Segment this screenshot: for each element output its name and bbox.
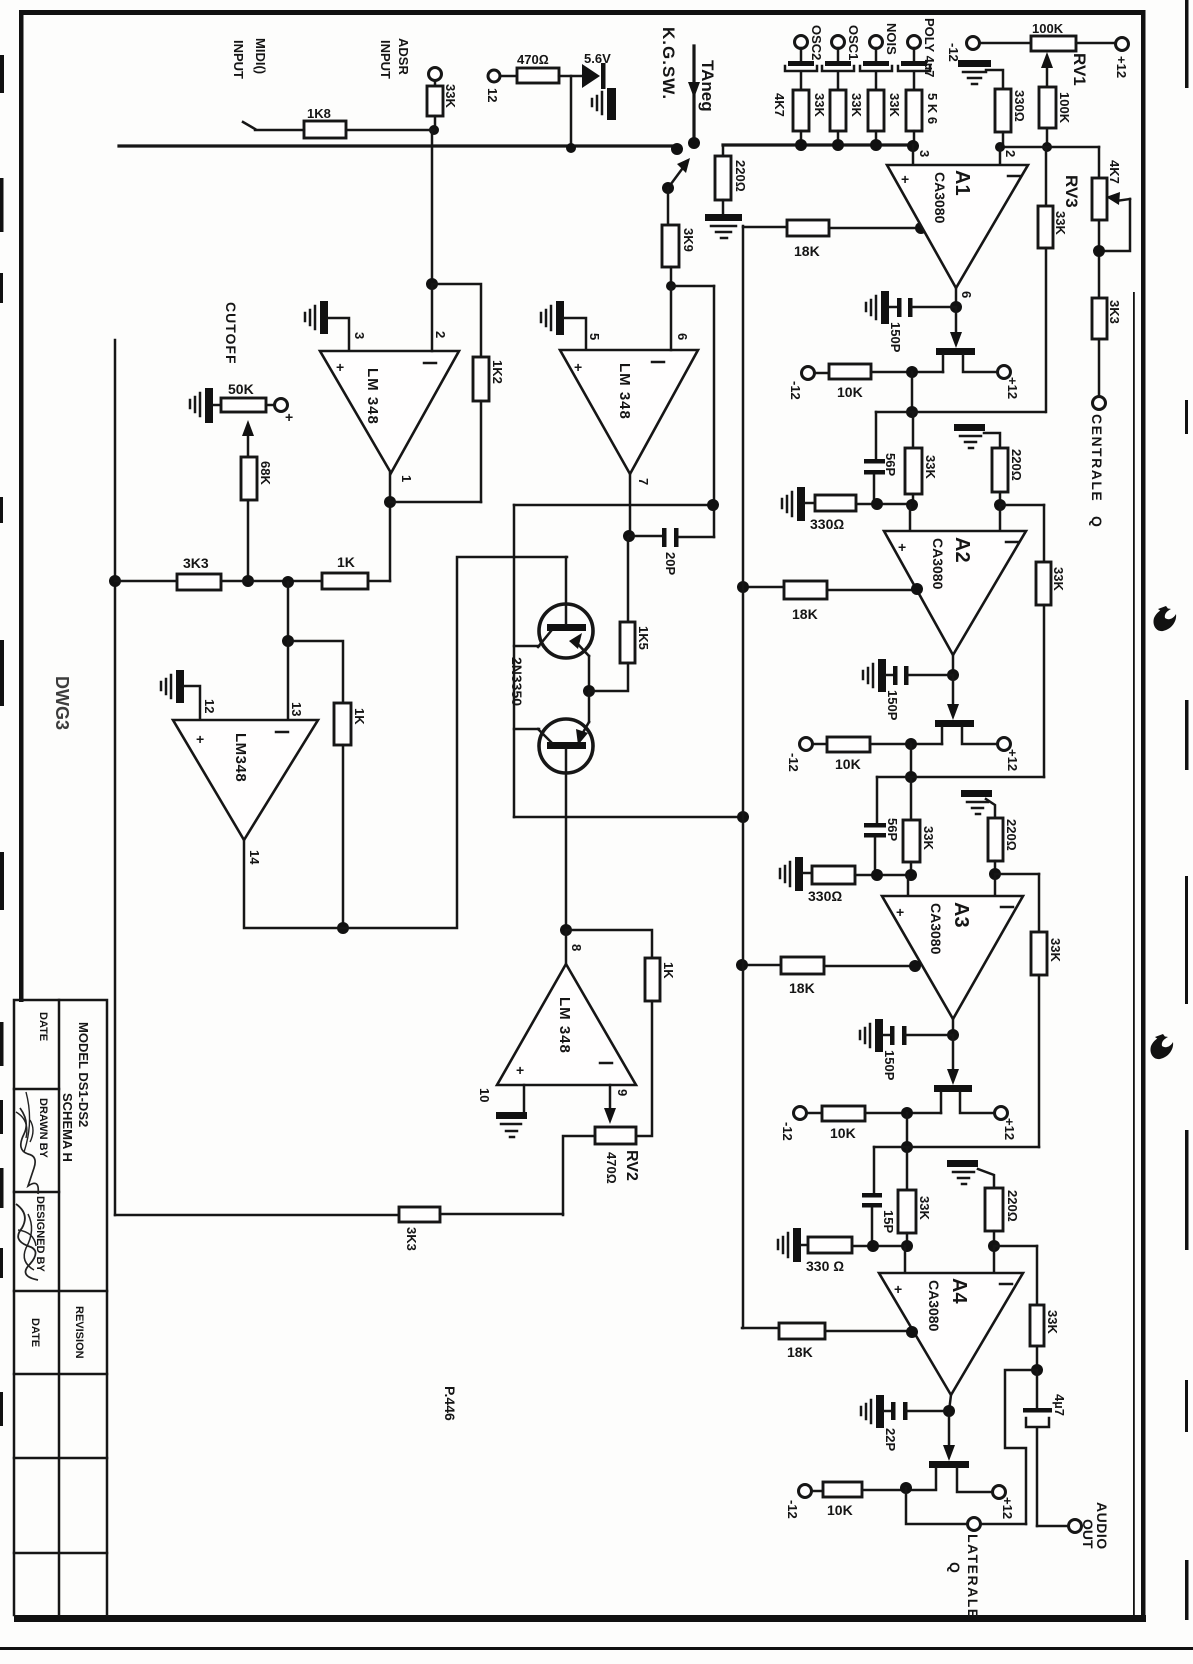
resistor 5K6 (POLY) [906, 90, 922, 131]
svg-text:-12: -12 [780, 1122, 795, 1141]
node rail switch pole [671, 143, 683, 155]
wire ground to 330R [986, 70, 1003, 89]
TOPLEFT [119, 38, 677, 284]
node 33K/1K8 junction [429, 125, 439, 135]
svg-text:+: + [336, 359, 344, 375]
wire ground to 330R (A3) [803, 872, 812, 875]
wire step to LATERALE row [1005, 1370, 1037, 1524]
wire 33K fb to fb row (A2) [1043, 605, 1046, 777]
svg-text:1K: 1K [352, 708, 367, 725]
node 3K9/pin6 [666, 281, 676, 291]
FET buffer (A4) [929, 1461, 969, 1468]
resistor 18K (A2) [784, 581, 827, 599]
svg-text:K.G.SW.: K.G.SW. [659, 27, 678, 100]
svg-text:A1: A1 [951, 170, 973, 196]
node on A1 left edge [915, 222, 927, 234]
label minus (LM2) [652, 361, 664, 364]
ground (22P A4) [876, 1395, 884, 1428]
svg-text:3: 3 [917, 150, 932, 157]
wire node2 to A1 minus input [999, 147, 1002, 165]
terminal -12 (470R) [488, 70, 500, 82]
ground (330R RV1) [958, 60, 991, 67]
resistor 33K (A2-A3 chain) [903, 820, 920, 862]
resistor 3K3 (row578) [177, 574, 221, 590]
svg-text:NOIS: NOIS [884, 23, 899, 55]
title block divider vertical [58, 1000, 61, 1615]
svg-text:3: 3 [352, 332, 367, 339]
wire row to A2 plus input [909, 505, 912, 531]
scan mark left edge [0, 55, 4, 93]
wire output to FET gate w arrow (A4) [948, 1411, 951, 1451]
svg-text:OSC2: OSC2 [809, 25, 824, 60]
wire 33K fb to fb row (A3) [1038, 975, 1041, 1147]
op-amp LM348 #4 [497, 964, 636, 1085]
ground (LM2 pin5) [556, 301, 564, 335]
svg-text:RV3: RV3 [1062, 175, 1081, 208]
node fb row (A1) [906, 406, 918, 418]
wire minus node to fb resistor (A3) [995, 873, 1039, 876]
svg-text:3K3: 3K3 [1107, 300, 1122, 324]
wire 10K to FET source (A2) [870, 743, 942, 746]
label minus (LM1) [424, 362, 436, 365]
node 2 (A1 inverting) [995, 142, 1005, 152]
wire 1K5 to node [589, 663, 628, 691]
svg-text:REVISION: REVISION [73, 1306, 85, 1359]
MIXER [772, 18, 940, 165]
resistor 33K (NOISE) [868, 90, 884, 131]
wire ground to 50K [213, 404, 221, 407]
resistor 10K (A4) [823, 1482, 862, 1497]
svg-text:5: 5 [587, 333, 602, 340]
capacitor 15P (A3-A4) [862, 1193, 882, 1198]
capacitor (OSC2 input) [800, 48, 803, 61]
svg-text:1K8: 1K8 [307, 106, 331, 121]
wire source to LATERALE Q [906, 1488, 967, 1524]
wire rail into A1 + input [912, 145, 915, 165]
wire bus to 18K (A4) [742, 1327, 779, 1330]
wire row578 left [115, 580, 177, 583]
node A3 minus [989, 868, 1001, 880]
ground (zener) [607, 88, 616, 120]
wiper arrow RV1 [1046, 62, 1049, 87]
wire 1K8 left lead [243, 122, 304, 130]
svg-text:150P: 150P [882, 1050, 897, 1081]
svg-text:LM 348: LM 348 [556, 997, 573, 1054]
node bus/18K (A2) [737, 581, 749, 593]
resistor 33K (A1-A2 chain) [905, 448, 922, 494]
svg-text:33K: 33K [917, 1196, 932, 1220]
resistor 1K (LM3 fb) [334, 703, 351, 745]
label minus (A4) [1000, 1283, 1012, 1286]
resistor 220R (A2) [992, 448, 1008, 492]
wire feedback row (A3) [874, 1146, 1039, 1149]
wire zener node down to rail [570, 76, 573, 148]
node on A2 left edge [911, 583, 923, 595]
node pin13/1K [282, 635, 294, 647]
wire ground to 220R (A4) [978, 1169, 994, 1188]
resistor 33K (A4 feedback) [1030, 1305, 1044, 1346]
node fb row (A2) [905, 771, 917, 783]
wire A4 output [949, 1395, 951, 1411]
resistor 1K (row578) [322, 573, 368, 589]
wire ground to pin12 [184, 686, 200, 720]
wire 220R top to rail [722, 145, 725, 156]
svg-text:CA3080: CA3080 [928, 903, 944, 955]
wire 330R to node 2 [1002, 132, 1005, 147]
wire 10K to FET source (A3) [865, 1112, 941, 1115]
terminal KBD input [429, 68, 442, 81]
wire source down to fb row (A3) [906, 1113, 909, 1147]
ground (LM4 pin10) [496, 1112, 527, 1119]
svg-text:33K: 33K [812, 93, 827, 117]
svg-text:10K: 10K [835, 756, 861, 772]
svg-text:+: + [574, 359, 582, 375]
node 33K/row (A4) [901, 1240, 913, 1252]
ground (150P A3) [875, 1019, 883, 1052]
resistor 10K (A1) [829, 364, 871, 379]
terminal CENTRALE Q [1093, 397, 1106, 410]
ground (220R A3) [961, 790, 992, 797]
svg-text:LM 348: LM 348 [364, 368, 381, 425]
wire POLY to rail [913, 131, 916, 145]
terminal +12 (A4) [993, 1486, 1006, 1499]
RV1 [946, 21, 1129, 165]
svg-text:-12: -12 [946, 43, 961, 62]
node 68K/row [242, 575, 254, 587]
wire TAneg vertical [692, 46, 695, 143]
terminal OSC2 [795, 36, 808, 49]
svg-text:+: + [516, 1062, 524, 1078]
wire ground to 220R (A3) [986, 799, 995, 818]
capacitor 150P (A1) [889, 306, 897, 309]
LM1 [190, 278, 505, 587]
svg-text:INPUT: INPUT [231, 40, 246, 79]
node A1 output [950, 301, 962, 313]
resistor 3K3 (RV3 chain) [1092, 298, 1107, 339]
svg-text:+: + [898, 539, 906, 555]
signature drawn-by [20, 1108, 38, 1194]
terminal LATERALE Q [968, 1518, 981, 1531]
svg-text:3K3: 3K3 [183, 555, 209, 571]
signature designed-by [16, 1204, 38, 1280]
svg-text:+12: +12 [1000, 1497, 1015, 1519]
svg-text:LM348: LM348 [232, 733, 249, 782]
wire pin14 output [244, 557, 567, 928]
svg-text:LATERALE: LATERALE [965, 1534, 981, 1620]
wire minus node into A3 [994, 874, 997, 896]
terminal NOISE [870, 36, 883, 49]
resistor 33K (KBD input) [427, 86, 443, 116]
svg-text:ADSR: ADSR [396, 38, 411, 75]
wire left bus x115 [114, 340, 117, 1215]
node A4 source [900, 1482, 912, 1494]
resistor 33K (A1 feedback) [1038, 206, 1053, 248]
svg-text:12: 12 [485, 88, 500, 102]
wire 68K to row [247, 500, 250, 581]
label minus (A3) [1001, 906, 1013, 909]
border left [19, 10, 24, 1002]
wire y817 to bus [514, 816, 743, 819]
wire minus node into A2 [999, 505, 1002, 531]
svg-text:CA3080: CA3080 [926, 1280, 942, 1332]
wire bus to 18K (A3) [742, 964, 781, 967]
wire to 56P [875, 412, 878, 459]
ground (LM1 pin3) [320, 301, 328, 334]
wire A2 plus row [856, 503, 913, 506]
wire pin8 node to 1K [566, 930, 652, 958]
svg-text:33K: 33K [923, 455, 938, 479]
wire 3K9 to pin6 node [670, 267, 673, 286]
wire ground to pin3 [328, 318, 349, 351]
svg-text:33K: 33K [921, 826, 936, 850]
border right outer [1141, 10, 1146, 1622]
op-amp LM348 #3 [173, 720, 318, 840]
node OSC1/rail [832, 139, 844, 151]
wire OSC1 to rail [837, 131, 840, 145]
resistor 33K (OSC1) [830, 90, 846, 131]
wire 220R to minus node (A3) [994, 861, 997, 874]
wire row1215 right [440, 1213, 563, 1216]
svg-text:-12: -12 [785, 1500, 800, 1519]
wire pin13 [287, 641, 290, 720]
svg-text:1K5: 1K5 [636, 626, 651, 650]
node A1 source [906, 366, 918, 378]
wire pin8 into LM4 [565, 930, 568, 964]
resistor 220R (A4) [985, 1188, 1003, 1231]
wire pin6 into LM2 [670, 286, 673, 350]
op-amp LM348 #2 [560, 350, 698, 474]
A3 [736, 790, 1063, 1246]
node NOISE/rail [870, 139, 882, 151]
transistor Q2 2N3350 [588, 691, 591, 722]
op-amp LM348 #1 [320, 351, 459, 473]
wire ground to 330R (A4) [801, 1244, 808, 1247]
svg-text:10K: 10K [830, 1125, 856, 1141]
capacitor 22P (A4) [884, 1410, 891, 1413]
resistor 10K (A2) [827, 737, 870, 752]
wire ground to 330R (A2) [805, 502, 815, 505]
wire -12 to RV1 [980, 42, 1031, 45]
svg-text:2: 2 [1003, 150, 1018, 157]
svg-text:33K: 33K [1048, 938, 1063, 962]
wire 10K to FET source [871, 371, 943, 374]
wire 1K to LM1 output [368, 580, 390, 583]
node 56P/row (A3) [871, 869, 883, 881]
node on A4 left edge [906, 1326, 918, 1338]
resistor 18K (A3) [781, 957, 824, 974]
resistor 100K (RV1 wiper) [1039, 87, 1056, 128]
node zener/rail [566, 143, 576, 153]
PAIR [509, 505, 749, 930]
arrow on TAneg wire [688, 82, 700, 98]
wire LM2 output [629, 474, 632, 536]
svg-text:470Ω: 470Ω [604, 1152, 619, 1184]
wire row1215 left [115, 1214, 399, 1217]
wire 1K2 to output row [480, 401, 483, 502]
svg-text:220Ω: 220Ω [1005, 1190, 1020, 1222]
svg-text:6: 6 [675, 333, 690, 340]
svg-text:MODEL DS1-DS2: MODEL DS1-DS2 [76, 1022, 91, 1127]
wire A3 plus row [855, 874, 911, 877]
svg-text:33K: 33K [1053, 211, 1068, 235]
capacitor 20P [629, 535, 662, 538]
node LM2 output/20P [623, 530, 635, 542]
wire 18K to A4 edge [825, 1330, 913, 1333]
zener 5.6V [582, 64, 600, 88]
wire bus to 18K (A2) [743, 586, 784, 589]
node fb row x713 [707, 499, 719, 511]
wire bus x742 [742, 226, 745, 1328]
scan mark right edge [1185, 0, 1189, 88]
svg-text:+: + [901, 171, 909, 187]
svg-text:CA3080: CA3080 [930, 538, 946, 590]
wire 18K to A2 edge [827, 589, 918, 592]
svg-text:Q: Q [947, 1562, 963, 1573]
wire 33K fb to output node (A4) [1036, 1346, 1039, 1370]
resistor 1K5 [627, 537, 630, 622]
wire -12 to 10K (A4) [812, 1490, 823, 1493]
resistor 330R (A4) [808, 1237, 852, 1253]
svg-text:100K: 100K [1057, 92, 1072, 124]
svg-text:20P: 20P [663, 552, 678, 575]
wire output row to 1K2 [390, 501, 481, 504]
node RV1/33K junction [1042, 142, 1052, 152]
node A4 output [943, 1405, 955, 1417]
scan blot bird 1 [1153, 608, 1176, 631]
wire source down to fb row [911, 372, 914, 412]
terminal +12 (RV1) [1116, 38, 1129, 51]
terminal CUTOFF + [275, 399, 288, 412]
node 56P/row (A2) [871, 498, 883, 510]
wire feedback row (A2) [877, 776, 1044, 779]
node POLY/rail/A1+ [907, 140, 919, 152]
wire 3K3 to terminal [1098, 339, 1101, 396]
wire -12 to 470R [500, 75, 517, 78]
node pin2 [426, 278, 438, 290]
capacitor 4u7 (output) [1036, 1370, 1039, 1408]
wire source down to fb row (A2) [910, 744, 913, 777]
wire node to feedback line [671, 285, 714, 288]
wire 33K chain to A4 row [906, 1233, 909, 1246]
node A2 output [947, 669, 959, 681]
svg-text:OSC1: OSC1 [846, 25, 861, 60]
label minus (LM3) [276, 731, 288, 734]
FET buffer (A3) [934, 1085, 972, 1092]
svg-text:2: 2 [433, 331, 448, 338]
svg-text:5.6V: 5.6V [584, 51, 611, 66]
wire -12 to 10K [815, 372, 829, 375]
ground (LM3 pin12) [176, 670, 184, 703]
wire A3 output [952, 1019, 955, 1035]
ground (150P A1) [881, 291, 889, 324]
svg-text:+12: +12 [1005, 749, 1020, 771]
wire A2 output [952, 655, 955, 675]
svg-text:+: + [196, 731, 204, 747]
wire OSC2 to rail [800, 131, 803, 145]
wire LATERALE to step [981, 1523, 1026, 1526]
svg-text:INPUT: INPUT [378, 40, 393, 79]
wire arm to 3K9 [667, 188, 670, 225]
svg-text:100K: 100K [1032, 21, 1064, 36]
svg-text:56P: 56P [885, 818, 900, 841]
resistor 330R (A3) [812, 866, 855, 884]
wire minus node to 33K fb (A2) [1043, 505, 1046, 562]
wire 33K chain to A2 row [912, 494, 915, 505]
node Q1 emitter / 1K5 [583, 685, 595, 697]
LM4 [115, 226, 743, 1421]
ground (220R switch) [705, 214, 742, 221]
wire minus node to fb resistor (A4) [994, 1245, 1037, 1248]
resistor 68K [241, 457, 257, 500]
svg-text:68K: 68K [258, 461, 273, 485]
svg-text:P.446: P.446 [442, 1386, 458, 1421]
resistor 10K (A3) [822, 1106, 865, 1121]
potentiometer 50K CUTOFF [221, 398, 266, 412]
svg-text:-12: -12 [788, 381, 803, 400]
wire NOISE to rail [875, 131, 878, 145]
node A3 source [901, 1107, 913, 1119]
resistor 33K (A3-A4 chain) [898, 1190, 916, 1233]
wire rail to 33K fb (A1) [1045, 147, 1048, 206]
svg-text:33K: 33K [443, 84, 458, 108]
wire ground to pin5 [564, 318, 586, 350]
resistor 33K (A2 feedback) [1036, 562, 1051, 605]
wire 1K8 right lead [346, 129, 434, 132]
svg-text:10K: 10K [827, 1502, 853, 1518]
svg-text:-12: -12 [786, 753, 801, 772]
node A3 output [947, 1029, 959, 1041]
A1 [743, 147, 1068, 505]
node pin8 [560, 924, 572, 936]
node y817/bus [737, 811, 749, 823]
wire RV3 bottom [1098, 220, 1101, 298]
wire pin10 to ground [523, 1085, 526, 1112]
terminal AUDIO OUT [1069, 1520, 1082, 1533]
resistor 18K (A4) [779, 1323, 825, 1339]
wire to AUDIO OUT [1037, 1525, 1068, 1528]
node fb row (A3) [901, 1141, 913, 1153]
ground (220R A2) [954, 424, 985, 431]
svg-text:+12: +12 [1114, 56, 1129, 78]
wire 1K to RV2 [636, 1001, 652, 1136]
svg-text:LM 348: LM 348 [616, 363, 633, 420]
svg-text:50K: 50K [228, 381, 254, 397]
wire 220R bottom [722, 200, 725, 214]
svg-text:DESIGNED BY: DESIGNED BY [34, 1196, 46, 1272]
svg-text:CUTOFF: CUTOFF [223, 302, 239, 365]
wire to 56P (A2) [876, 777, 879, 823]
svg-text:DRAWN BY: DRAWN BY [37, 1098, 49, 1159]
svg-text:18K: 18K [792, 606, 818, 622]
wire bus to 18K (A1) [743, 226, 787, 229]
svg-text:33K: 33K [887, 93, 902, 117]
svg-text:3K9: 3K9 [681, 228, 696, 252]
SWITCH [659, 27, 913, 537]
ground (330R A3) [795, 857, 803, 891]
svg-text:1K2: 1K2 [490, 360, 505, 384]
resistor 330R (A2) [815, 495, 856, 511]
svg-text:33K: 33K [849, 93, 864, 117]
label minus (A2) [1006, 541, 1018, 544]
capacitor 150P (A3) [883, 1034, 890, 1037]
wire -12 to 10K (A2) [813, 743, 827, 746]
svg-text:470Ω: 470Ω [517, 52, 549, 67]
node OSC2/rail [795, 139, 807, 151]
wire 10K to FET source (A4) [862, 1489, 936, 1492]
svg-text:+: + [285, 409, 293, 425]
TITLE [14, 1000, 107, 1615]
wire fb row y505 [514, 504, 713, 507]
